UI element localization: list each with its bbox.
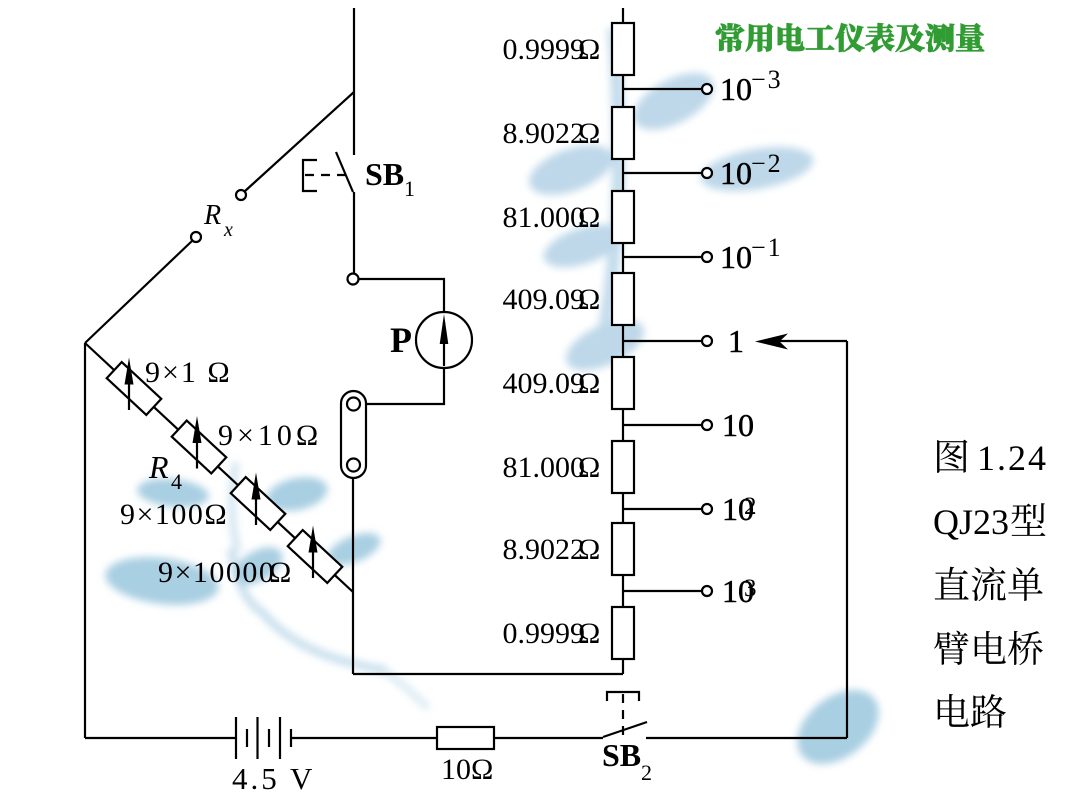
svg-text:1.24: 1.24 bbox=[977, 438, 1048, 478]
title: common electrical instruments and measurement bbox=[716, 23, 984, 52]
wire: galvanometer to jack bbox=[366, 368, 444, 404]
svg-text:9×1 Ω: 9×1 Ω bbox=[145, 356, 232, 389]
wire: tap at y=425 bbox=[623, 424, 703, 426]
svg-text:409.09: 409.09 bbox=[503, 283, 586, 316]
resistor ladder box 4 bbox=[612, 273, 634, 325]
resistor ladder box 3 bbox=[612, 191, 634, 243]
switch SB2 actuator dashed link bbox=[622, 694, 624, 737]
wire: ladder vertical bbox=[622, 8, 624, 674]
rheostat R4 element 3 arrow bbox=[255, 498, 257, 526]
switch SB1 actuator bracket bbox=[303, 160, 317, 191]
resistor ladder box 7 bbox=[612, 523, 634, 575]
wire: diagonal from Rx lower terminal to left corner bbox=[85, 241, 193, 344]
wire: node to galvanometer bbox=[359, 279, 445, 312]
caption line 1: fig 1.24 bbox=[937, 438, 1048, 478]
wire: SB2 to right corner bbox=[646, 737, 847, 739]
svg-text:QJ23: QJ23 bbox=[933, 502, 1009, 542]
svg-text:81.000: 81.000 bbox=[503, 451, 586, 484]
galvanometer P circle bbox=[416, 312, 472, 368]
wire: jack down to bottom node bbox=[352, 478, 354, 674]
svg-text:2: 2 bbox=[641, 760, 652, 785]
caption line 3 bbox=[935, 567, 1043, 601]
svg-text:Ω: Ω bbox=[578, 617, 600, 650]
svg-text:Ω: Ω bbox=[578, 283, 600, 316]
svg-text:R: R bbox=[148, 449, 169, 485]
jack terminal top bbox=[347, 398, 360, 411]
resistor ladder box 8 bbox=[612, 607, 634, 659]
svg-text:Ω: Ω bbox=[578, 533, 600, 566]
node: Rx upper terminal bbox=[236, 190, 246, 200]
wire: tap at y=89 bbox=[623, 88, 703, 90]
wire: resistor to SB2 bbox=[494, 737, 603, 739]
rheostat R4 element 2 body bbox=[172, 421, 227, 474]
svg-text:Ω: Ω bbox=[269, 556, 291, 589]
battery 4.5V plates bbox=[235, 717, 237, 759]
svg-text:8.9022: 8.9022 bbox=[503, 117, 586, 150]
switch SB2 actuator bracket bbox=[607, 692, 639, 701]
node: tap terminal y=173 bbox=[702, 168, 712, 178]
caption line 4 bbox=[934, 631, 1043, 666]
wire: tap at y=341 bbox=[623, 340, 703, 342]
wire: bottom of bridge middle bbox=[353, 673, 623, 675]
svg-text:SB: SB bbox=[602, 737, 641, 773]
svg-text:R: R bbox=[203, 200, 221, 231]
svg-text:x: x bbox=[223, 219, 233, 241]
caption line 2: QJ23 type bbox=[933, 502, 1045, 542]
svg-text:10: 10 bbox=[720, 155, 752, 191]
svg-text:409.09: 409.09 bbox=[503, 367, 586, 400]
node: tap terminal y=89 bbox=[702, 84, 712, 94]
switch SB2 blade bbox=[603, 722, 647, 737]
svg-text:Ω: Ω bbox=[578, 367, 600, 400]
svg-text:P: P bbox=[390, 320, 412, 360]
svg-text:0.9999: 0.9999 bbox=[503, 617, 586, 650]
svg-text:10: 10 bbox=[720, 71, 752, 107]
resistor ladder box 1 bbox=[612, 23, 634, 75]
svg-text:Ω: Ω bbox=[578, 33, 600, 66]
wire: R4 diagonal chain bbox=[85, 343, 353, 592]
svg-text:2: 2 bbox=[744, 493, 757, 520]
svg-text:10Ω: 10Ω bbox=[441, 753, 493, 786]
svg-text:9×10Ω: 9×10Ω bbox=[218, 419, 322, 452]
svg-text:−1: −1 bbox=[751, 233, 783, 262]
node: tap terminal y=341 bbox=[702, 336, 712, 346]
resistor ladder box 2 bbox=[612, 107, 634, 159]
svg-text:Ω: Ω bbox=[578, 451, 600, 484]
wire: left vertical bbox=[84, 343, 86, 738]
rheostat R4 element 2 arrow bbox=[196, 441, 198, 469]
svg-text:9×100Ω: 9×100Ω bbox=[120, 498, 228, 531]
svg-text:1: 1 bbox=[728, 323, 744, 359]
svg-text:10: 10 bbox=[720, 239, 752, 275]
wire: tap at y=591 bbox=[623, 590, 703, 592]
svg-text:8.9022: 8.9022 bbox=[503, 533, 586, 566]
svg-text:Ω: Ω bbox=[578, 201, 600, 234]
wire: tap at y=509 bbox=[623, 508, 703, 510]
switch SB1 blade bbox=[336, 152, 353, 192]
wire: battery to resistor bbox=[291, 737, 437, 739]
wire: top-left vertical into SB1 bbox=[353, 8, 355, 155]
svg-text:81.000: 81.000 bbox=[503, 201, 586, 234]
rheostat R4 element 1 arrow bbox=[128, 383, 130, 411]
resistor 10 ohm body bbox=[437, 727, 494, 749]
node: tap terminal y=257 bbox=[702, 252, 712, 262]
svg-text:3: 3 bbox=[744, 575, 757, 602]
svg-text:4.5 V: 4.5 V bbox=[232, 761, 315, 796]
galvanometer jack body bbox=[341, 391, 366, 478]
svg-text:1: 1 bbox=[404, 176, 415, 201]
wire: tap at y=173 bbox=[623, 172, 703, 174]
resistor ladder box 5 bbox=[612, 357, 634, 409]
wire: diagonal from node to Rx upper terminal bbox=[245, 92, 355, 192]
wire: right vertical return bbox=[846, 341, 848, 738]
galvanometer P needle bbox=[443, 322, 445, 366]
node: tap terminal y=591 bbox=[702, 586, 712, 596]
wire: tap at y=257 bbox=[623, 256, 703, 258]
jack terminal bottom bbox=[347, 459, 360, 472]
svg-text:10: 10 bbox=[722, 407, 754, 443]
svg-text:−3: −3 bbox=[751, 65, 783, 94]
svg-text:Ω: Ω bbox=[578, 117, 600, 150]
node: Rx lower terminal bbox=[191, 232, 201, 242]
rheostat R4 element 4 body bbox=[288, 530, 343, 583]
svg-text:−2: −2 bbox=[751, 149, 783, 178]
switch SB1 actuator dashed link bbox=[305, 174, 348, 176]
selector arrow at tap 1 bbox=[755, 334, 788, 350]
svg-text:4: 4 bbox=[171, 469, 182, 494]
rheostat R4 element 4 arrow bbox=[312, 551, 314, 579]
node: junction below SB1 bbox=[348, 274, 359, 285]
caption line 5 bbox=[938, 694, 1006, 728]
wire: SB1 to node bbox=[353, 192, 355, 274]
wire: bottom left bbox=[85, 737, 236, 739]
resistor ladder box 6 bbox=[612, 441, 634, 493]
rheostat R4 element 1 body bbox=[107, 362, 162, 415]
rheostat R4 element 3 body bbox=[231, 477, 286, 530]
svg-text:9×10000: 9×10000 bbox=[158, 556, 275, 589]
svg-text:SB: SB bbox=[365, 156, 404, 192]
svg-text:0.9999: 0.9999 bbox=[503, 33, 586, 66]
node: tap terminal y=425 bbox=[702, 420, 712, 430]
node: tap terminal y=509 bbox=[702, 504, 712, 514]
